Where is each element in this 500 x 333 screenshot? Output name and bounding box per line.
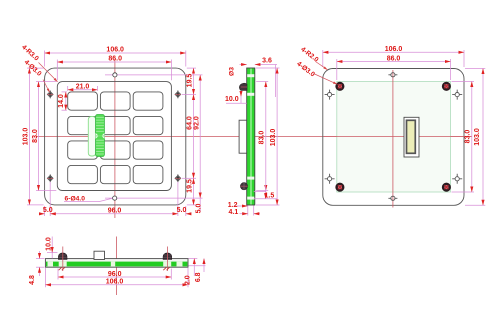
svg-text:4-R3.0: 4-R3.0 — [20, 44, 40, 63]
label 4-D3.0 front — [23, 59, 50, 93]
dim 106.0 bottom — [45, 268, 188, 287]
svg-text:96.0: 96.0 — [108, 271, 122, 278]
svg-text:14.0: 14.0 — [58, 94, 65, 108]
dim 92.0 and 5.0 right — [194, 75, 203, 213]
dim 6.8 bottom right — [195, 259, 204, 283]
label 4-D3.0 back — [295, 61, 337, 85]
front vertical centerline — [114, 59, 116, 218]
dim 21.0 key width — [68, 84, 98, 91]
dim 96.0 bottom — [58, 269, 171, 280]
svg-text:1.5: 1.5 — [265, 193, 275, 200]
svg-text:86.0: 86.0 — [108, 56, 122, 63]
dim 4.1 side — [229, 206, 261, 217]
back bottom center hole — [388, 196, 397, 200]
dim 1.2 side — [228, 202, 248, 209]
back pcb square — [337, 82, 451, 193]
dim 86.0 top — [57, 56, 171, 81]
dim 103.0 side — [256, 68, 280, 205]
front bottom center hole — [105, 196, 203, 200]
dim 10.0 side — [225, 91, 247, 103]
svg-text:106.0: 106.0 — [106, 47, 124, 54]
keys 3x4 grid — [68, 92, 163, 184]
bottom standoff right — [163, 247, 172, 272]
svg-text:86.0: 86.0 — [387, 55, 401, 62]
dim 83.0 back — [452, 82, 475, 193]
dim 86.0 back — [337, 55, 451, 80]
bottom connector — [94, 251, 105, 259]
dim 83.0 side — [256, 82, 268, 191]
svg-text:92.0: 92.0 — [194, 116, 201, 130]
label 6-D4.0 — [64, 195, 112, 202]
svg-text:5.0: 5.0 — [177, 207, 187, 214]
dim 3.6 side — [240, 58, 278, 98]
back vertical centerline — [392, 70, 394, 208]
front outer panel outline — [45, 68, 186, 205]
bottom vertical centerline — [116, 237, 118, 296]
label 4-R2.0 back — [299, 46, 327, 70]
back screw bottom-right — [443, 184, 450, 191]
bottom standoff left — [58, 247, 67, 272]
side panel strip — [247, 68, 255, 205]
svg-text:Ø3: Ø3 — [229, 67, 236, 76]
front mounting hole top-right — [175, 90, 181, 98]
dim 10.0 bottom — [46, 237, 58, 259]
front mounting hole top-left — [47, 90, 53, 98]
svg-text:6.8: 6.8 — [195, 272, 202, 282]
svg-text:10.0: 10.0 — [46, 237, 53, 251]
svg-text:4.1: 4.1 — [229, 209, 239, 216]
svg-text:19.5: 19.5 — [187, 179, 194, 193]
dim 106.0 top — [45, 47, 186, 67]
dim bottom 5.0 96.0 5.0 — [40, 182, 191, 216]
svg-text:21.0: 21.0 — [76, 84, 90, 91]
back hole marker top-right — [452, 90, 462, 100]
dim 19.5 64.0 19.5 right — [182, 68, 196, 205]
svg-text:103.0: 103.0 — [23, 128, 30, 146]
dim 83.0 left — [32, 82, 56, 191]
svg-text:2.0: 2.0 — [184, 275, 191, 285]
back hole marker bottom-left — [325, 174, 335, 184]
svg-text:103.0: 103.0 — [270, 129, 277, 147]
svg-text:4-R2.0: 4-R2.0 — [299, 46, 319, 64]
svg-text:106.0: 106.0 — [385, 46, 403, 53]
green slider outline — [88, 117, 95, 157]
dim 4.8 bottom left — [29, 251, 44, 285]
label 4-R3.0 front — [20, 44, 57, 82]
back screw top-left — [337, 83, 344, 90]
green slider bar — [96, 115, 105, 157]
back connector — [404, 117, 419, 157]
back outer panel outline — [323, 69, 464, 206]
side standoff bottom — [240, 183, 247, 190]
svg-text:64.0: 64.0 — [187, 116, 194, 130]
svg-text:10.0: 10.0 — [225, 96, 239, 103]
front mounting hole bottom-left — [47, 174, 53, 182]
horizontal centerline — [36, 135, 472, 137]
side standoff top — [239, 83, 247, 90]
svg-text:83.0: 83.0 — [258, 131, 265, 145]
dim 1.5 side — [254, 185, 278, 200]
back hole marker top-left — [325, 90, 335, 100]
svg-text:106.0: 106.0 — [106, 278, 124, 285]
front mounting hole bottom-right — [175, 174, 181, 182]
dim 2.0 bottom right — [184, 259, 205, 286]
back horizontal centerline over pcb — [324, 135, 472, 137]
dim 106.0 back — [323, 46, 464, 67]
svg-text:5.0: 5.0 — [195, 204, 202, 214]
svg-text:5.0: 5.0 — [43, 207, 53, 214]
front inner bezel outline — [57, 82, 171, 191]
svg-text:83.0: 83.0 — [32, 129, 39, 143]
dim 14.0 key height — [58, 92, 67, 110]
back screw top-right — [443, 83, 450, 90]
svg-text:19.5: 19.5 — [187, 74, 194, 88]
svg-text:83.0: 83.0 — [464, 130, 471, 144]
bottom strip — [45, 259, 188, 268]
svg-text:96.0: 96.0 — [108, 207, 122, 214]
svg-text:4.8: 4.8 — [29, 275, 36, 285]
back top center hole — [388, 73, 397, 77]
back screw bottom-left — [337, 184, 344, 191]
dim 103.0 left — [23, 68, 44, 205]
side key profile — [239, 120, 247, 153]
svg-text:1.2: 1.2 — [228, 202, 238, 209]
front top center hole — [105, 73, 203, 77]
dim 103.0 back — [465, 69, 485, 206]
back hole marker bottom-right — [452, 174, 462, 184]
svg-text:103.0: 103.0 — [474, 128, 481, 146]
svg-text:4-Ø3.0: 4-Ø3.0 — [295, 61, 316, 79]
svg-text:3.6: 3.6 — [262, 58, 272, 65]
